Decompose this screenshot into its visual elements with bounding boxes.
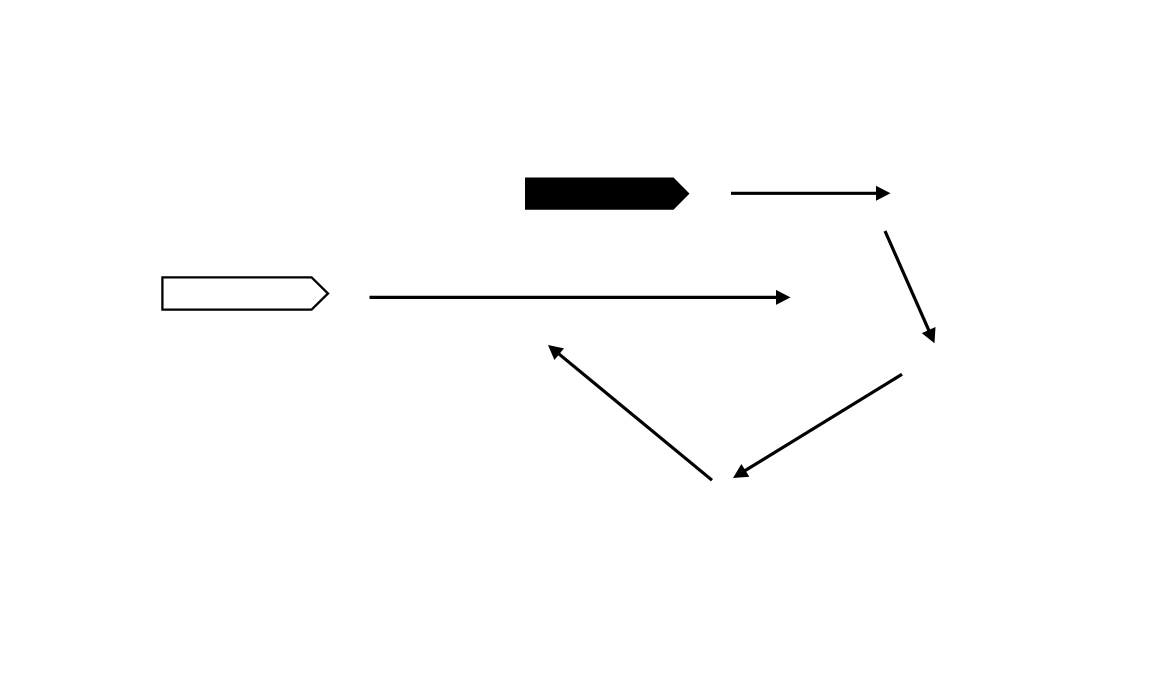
diagonal arrow down-right — [885, 231, 936, 343]
black pentagon arrow shape — [525, 178, 690, 210]
long horizontal arrow from white pentagon — [370, 290, 791, 305]
diagonal arrow down-left — [733, 374, 902, 478]
arrow from black pentagon to right — [731, 186, 891, 201]
white pentagon arrow shape — [162, 277, 328, 309]
diagonal arrow up-left — [548, 345, 712, 480]
